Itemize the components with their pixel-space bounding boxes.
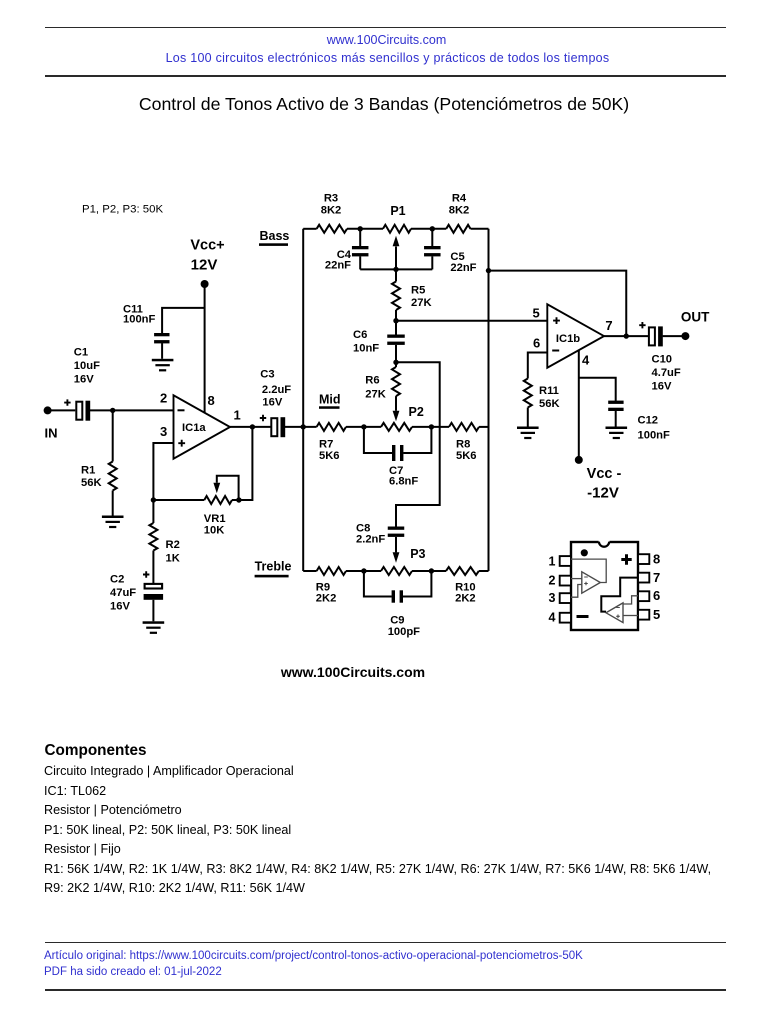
node OUT terminal (681, 332, 689, 340)
IC package V+ symbol (621, 554, 631, 564)
svg-text:2: 2 (160, 391, 167, 406)
wire Vcc+ branch to C11 (162, 308, 205, 333)
resistor R1 (109, 462, 117, 491)
junction bass wiper node (393, 267, 398, 272)
resistor R5 (392, 282, 400, 311)
wire IC1b pin 4 down (578, 350, 580, 460)
svg-text:C10: C10 (652, 354, 673, 366)
wire C6/R6 node to C8 (396, 362, 440, 526)
wire R11 to ground (527, 408, 529, 427)
svg-text:4.7uF: 4.7uF (652, 367, 681, 379)
resistor R3 (317, 225, 347, 233)
capacitor C11 (154, 333, 169, 336)
svg-text:1: 1 (549, 555, 556, 569)
IC package amp B interior (601, 578, 638, 612)
document title (0, 94, 768, 115)
svg-text:Mid: Mid (319, 393, 341, 407)
junction IC1b output (624, 333, 629, 338)
junction pin3/R2/VR1 (151, 497, 156, 502)
node Vcc+ terminal (201, 280, 209, 288)
resistor R11 (524, 379, 532, 408)
svg-text:10nF: 10nF (353, 343, 379, 355)
svg-text:OUT: OUT (681, 310, 710, 325)
ground under R11 (517, 427, 539, 430)
svg-text:5: 5 (533, 306, 540, 321)
svg-text:R2: R2 (166, 539, 180, 551)
wire C5 drop (431, 229, 433, 246)
svg-text:8K2: 8K2 (449, 205, 470, 217)
svg-text:C12: C12 (638, 415, 659, 427)
ground under C11 (152, 359, 174, 362)
svg-text:47uF: 47uF (110, 587, 136, 599)
node IN terminal (44, 406, 52, 414)
wire treble rail right (479, 570, 489, 572)
wire IC1a out to C3 (230, 426, 271, 428)
wire pin4 branch to C12 (579, 378, 616, 401)
svg-text:12V: 12V (191, 257, 218, 274)
resistor R8 (449, 423, 479, 431)
wire right bus vertical (488, 229, 490, 571)
ground under R1 (102, 516, 124, 519)
IC1b non-inverting input + (553, 317, 560, 324)
wire Vcc+ to IC1a pin 8 (204, 284, 206, 413)
svg-text:4: 4 (549, 611, 556, 625)
wire wiper node to R5 (395, 269, 397, 281)
op-amp IC1a (174, 395, 231, 458)
svg-text:C1: C1 (74, 347, 88, 359)
wire C4-C5 bottom rail (360, 268, 432, 270)
junction left bus / mid rail (301, 424, 306, 429)
IC package right pins 8-5 (638, 554, 649, 564)
junction C6/R6/C8-branch (393, 360, 398, 365)
svg-text:22nF: 22nF (450, 262, 476, 274)
wire C11 to ground (161, 343, 163, 359)
footer top rule (45, 942, 726, 944)
svg-text:3: 3 (160, 424, 167, 439)
wire C10 to OUT (663, 335, 686, 337)
wire junction to VR1 (153, 499, 204, 501)
svg-text:IC1a: IC1a (182, 422, 206, 434)
wire IN to C1 (48, 409, 76, 411)
VR1 wiper arm (217, 476, 239, 500)
svg-text:1K: 1K (166, 553, 180, 565)
resistor R10 (446, 567, 479, 575)
svg-text:R6: R6 (365, 375, 379, 387)
wire VR1 to output node (232, 427, 252, 500)
wire C7 left leg (364, 427, 392, 453)
capacitor C2 polarity + (143, 571, 149, 577)
wire R6 to P2 wiper arrow (395, 396, 397, 411)
wire C6 to R6 (395, 345, 397, 367)
svg-text:C6: C6 (353, 329, 367, 341)
capacitor C7 (392, 445, 395, 461)
wire C7 right leg (403, 427, 431, 453)
wire IC1b pin 6 to R11 (528, 353, 548, 379)
svg-text:R3: R3 (324, 193, 338, 205)
capacitor C8 (388, 527, 405, 530)
svg-text:7: 7 (605, 318, 612, 333)
wire R9 to P3 (346, 570, 381, 572)
svg-text:100nF: 100nF (638, 430, 670, 442)
junction R9/P3/C9 (361, 568, 366, 573)
IC1a inverting input - (178, 409, 185, 411)
wire right bus to output node (489, 271, 627, 337)
caption under schematic (233, 664, 473, 680)
node Vcc- terminal (575, 456, 583, 464)
wire R2 to C2 (152, 551, 154, 584)
junction C1/R1 (110, 408, 115, 413)
svg-text:5K6: 5K6 (456, 450, 477, 462)
svg-text:R5: R5 (411, 285, 425, 297)
capacitor C5 (424, 246, 441, 249)
capacitor C3 (271, 418, 277, 436)
junction P3/R10/C9 (429, 568, 434, 573)
header site link text (3, 33, 768, 47)
potentiometer P1 (383, 225, 411, 233)
capacitor C10 polarity + (639, 322, 645, 328)
wire left bus vertical (302, 229, 304, 571)
svg-text:IC1b: IC1b (556, 333, 580, 345)
svg-text:Bass: Bass (260, 229, 290, 243)
IC1a non-inverting input + (178, 440, 185, 447)
svg-text:56K: 56K (81, 477, 102, 489)
svg-text:5K6: 5K6 (319, 450, 340, 462)
P1 wiper arrow (395, 247, 397, 270)
potentiometer P2 (381, 423, 412, 431)
svg-text:6: 6 (653, 588, 660, 603)
svg-text:27K: 27K (365, 389, 386, 401)
wire C2 to ground (152, 600, 154, 622)
resistor R6 (392, 367, 400, 396)
svg-text:R1: R1 (81, 465, 95, 477)
wire bass rail left (303, 228, 316, 230)
capacitor C12 (608, 401, 623, 404)
wire C9 right leg (403, 571, 432, 597)
potentiometer P3 (381, 567, 412, 575)
svg-text:P1, P2, P3: 50K: P1, P2, P3: 50K (82, 204, 163, 216)
wire C8 to P3 wiper arrow (395, 537, 397, 553)
svg-text:8K2: 8K2 (321, 205, 342, 217)
wire junction to R1 (112, 410, 114, 461)
ground under C12 (606, 427, 628, 430)
junction right bus / feedback (486, 268, 491, 273)
junction P1/R4/C5 (430, 226, 435, 231)
capacitor C10 (649, 327, 655, 345)
IC package left pins 1-4 (560, 556, 571, 566)
junction VR1 wiper/terminal (236, 497, 241, 502)
wire R5 to C6 (395, 310, 397, 335)
svg-text:R7: R7 (319, 439, 333, 451)
IC1b inverting input - (552, 350, 559, 352)
svg-text:R4: R4 (452, 193, 467, 205)
junction R7/P2/C7 (361, 424, 366, 429)
svg-text:2K2: 2K2 (455, 593, 476, 605)
svg-text:3: 3 (549, 591, 556, 605)
wire R2 vertical (152, 500, 154, 523)
svg-text:2K2: 2K2 (316, 593, 337, 605)
svg-text:2: 2 (549, 574, 556, 588)
svg-text:8: 8 (653, 552, 660, 567)
capacitor C1 (76, 402, 82, 420)
capacitor C3 polarity + (260, 415, 266, 421)
footer article url text (44, 950, 583, 962)
wire R7 to P2 (346, 426, 381, 428)
capacitor C1 polarity + (64, 399, 70, 405)
svg-text:5: 5 (653, 607, 660, 622)
footer date (44, 966, 222, 978)
svg-text:-12V: -12V (587, 485, 619, 502)
wire P1 to R4 (411, 228, 446, 230)
capacitor C6 (387, 335, 405, 338)
svg-text:10uF: 10uF (74, 360, 100, 372)
svg-text:6.8nF: 6.8nF (389, 476, 418, 488)
svg-text:IN: IN (45, 426, 58, 441)
wire R5/C6 node to IC1b pin 5 (396, 320, 547, 322)
header top rule (45, 27, 726, 29)
svg-text:VR1: VR1 (204, 513, 226, 525)
junction R3/P1/C4 (358, 226, 363, 231)
wire IC1a pin 3 stub (153, 443, 173, 500)
footer bottom rule (45, 989, 726, 991)
svg-text:1: 1 (234, 408, 241, 423)
wire C12 to ground (615, 411, 617, 427)
wire IC1b out to C10 (604, 335, 649, 337)
svg-text:8: 8 (208, 393, 215, 408)
wire C5 bottom (431, 256, 433, 269)
svg-text:6: 6 (533, 336, 540, 351)
svg-text:16V: 16V (652, 381, 672, 393)
wire bass rail right (471, 228, 489, 230)
wire C4 drop (359, 229, 361, 246)
wire treble rail left (303, 570, 316, 572)
svg-text:27K: 27K (411, 297, 432, 309)
wire P2 to R8 (412, 426, 449, 428)
svg-text:R11: R11 (539, 385, 559, 397)
svg-text:16V: 16V (262, 397, 282, 409)
junction P2/R8/C7 (429, 424, 434, 429)
wire C1 to IC1a pin 2 (90, 409, 174, 411)
svg-text:2.2uF: 2.2uF (262, 384, 291, 396)
svg-text:22nF: 22nF (325, 260, 351, 272)
junction R5/C6/pin5 (393, 318, 398, 323)
junction IC1a output (250, 424, 255, 429)
svg-text:Vcc -: Vcc - (587, 466, 622, 482)
svg-text:100pF: 100pF (388, 626, 420, 638)
capacitor C9 (392, 590, 395, 602)
svg-text:2.2nF: 2.2nF (356, 534, 385, 546)
svg-text:16V: 16V (110, 601, 130, 613)
wire mid rail right (479, 426, 489, 428)
potentiometer VR1 (204, 496, 232, 504)
wire C4 bottom (359, 256, 361, 269)
svg-text:C9: C9 (390, 615, 404, 627)
svg-text:Vcc+: Vcc+ (190, 238, 224, 254)
resistor R4 (446, 225, 470, 233)
svg-text:10K: 10K (204, 525, 225, 537)
svg-text:16V: 16V (74, 374, 94, 386)
capacitor C2 (145, 584, 163, 589)
svg-text:7: 7 (653, 570, 660, 585)
wire P3 to R10 (412, 570, 446, 572)
svg-text:C3: C3 (260, 369, 274, 381)
svg-text:4: 4 (582, 353, 590, 368)
wire R1 to ground (112, 491, 114, 516)
capacitor C4 (352, 246, 369, 249)
wire C9 left leg (364, 571, 392, 597)
IC package pin 1 marker dot (581, 549, 588, 556)
svg-text:P3: P3 (410, 547, 425, 561)
op-amp IC1b (547, 304, 604, 367)
svg-text:56K: 56K (539, 398, 560, 410)
IC package DIP-8 body with notch (571, 542, 638, 630)
svg-text:C2: C2 (110, 574, 124, 586)
header bottom rule (45, 75, 726, 77)
wire R3 to P1 (347, 228, 383, 230)
components heading (45, 742, 147, 760)
resistor R2 (149, 523, 157, 551)
components list (44, 762, 711, 899)
header tagline (4, 51, 768, 65)
svg-text:P1: P1 (390, 204, 405, 218)
svg-text:100nF: 100nF (123, 314, 155, 326)
resistor R9 (317, 567, 346, 575)
wire C3 to mid rail (285, 426, 317, 428)
svg-text:Treble: Treble (255, 560, 292, 574)
resistor R7 (317, 423, 346, 431)
ground under C2 (143, 621, 165, 624)
IC package V- symbol (577, 615, 589, 618)
IC package amp A interior (571, 559, 606, 582)
svg-text:P2: P2 (409, 405, 424, 419)
svg-text:R8: R8 (456, 439, 470, 451)
